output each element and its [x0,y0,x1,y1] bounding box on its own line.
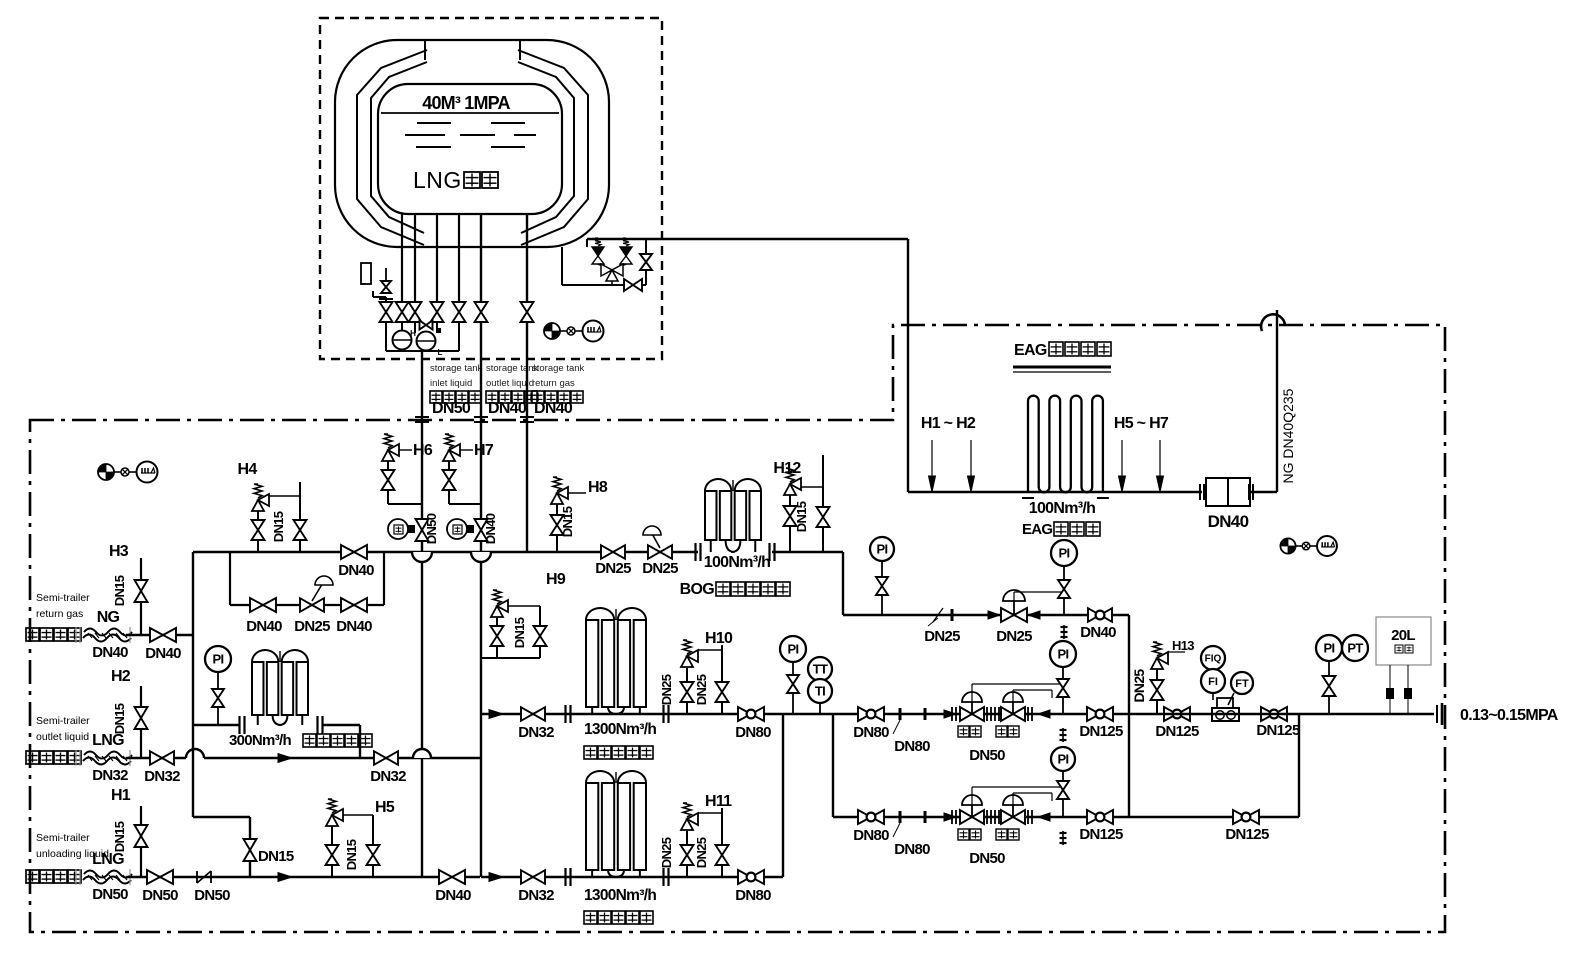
tank inner vessel [378,84,562,214]
svg-text:storage tank: storage tank [430,363,483,374]
svg-text:DN25: DN25 [924,628,960,645]
EAG collection header [908,491,1202,493]
svg-text:DN50: DN50 [969,850,1005,867]
svg-text:DN32: DN32 [518,887,554,904]
svg-text:FI: FI [1208,676,1218,688]
regulator train 2 takeoff bus [832,714,834,817]
valve DN80 vap1 outlet [738,707,751,721]
PSV valve left [592,247,604,256]
EAG vaporizer coil 100Nm3/h [1027,401,1029,487]
svg-text:storage tank: storage tank [532,363,585,374]
tank nozzle pipes [401,213,403,302]
impulse lines train2 [971,787,973,805]
svg-text:PI: PI [1058,752,1069,767]
bypass valve DN40 right [341,598,354,612]
trailer unloading line [126,876,480,878]
svg-text:DN32: DN32 [370,768,406,785]
svg-text:H10: H10 [705,630,733,647]
vaporizer 1 outlet flange [662,705,664,723]
tank pressure regulator assembly [361,263,371,284]
svg-text:1300Nm³/h: 1300Nm³/h [584,721,656,738]
tank PSV manifold [561,247,563,285]
svg-text:DN50: DN50 [424,513,439,544]
PI gauge BOG line [870,537,894,561]
svg-text:H1 ~ H2: H1 ~ H2 [921,415,976,432]
svg-text:DN40: DN40 [1080,624,1116,641]
outlet end flange [1436,705,1438,723]
bypass valve DN40 left [250,598,263,612]
tank jacket outer right [518,50,588,245]
svg-text:DN40: DN40 [336,618,372,635]
svg-text:DN40: DN40 [435,887,471,904]
valve DN32 outlet [150,751,162,765]
H4 relief assembly [257,508,259,552]
H3 vent riser [140,558,142,635]
svg-text:H1: H1 [111,787,131,804]
svg-text:DN25: DN25 [694,674,709,705]
svg-text:EAG: EAG [1022,521,1052,538]
TT TI instruments [808,657,832,681]
svg-text:DN80: DN80 [853,724,889,741]
regulator valve train1 [994,707,996,721]
svg-text:DN15: DN15 [112,821,127,852]
svg-text:DN80: DN80 [894,738,930,755]
insulating joint DN25 [933,608,943,622]
svg-text:DN15: DN15 [112,575,127,606]
tank valve row [380,302,393,312]
insulating joints train1 [899,708,902,720]
liquid level line [381,112,559,114]
svg-text:inlet liquid: inlet liquid [430,378,472,389]
svg-text:DN25: DN25 [659,837,674,868]
DN15 valve booster feed [249,817,251,877]
tank outlet liquid DN40 drop pipe [480,322,482,877]
svg-text:PI: PI [1324,641,1335,656]
svg-text:Semi-trailer: Semi-trailer [36,832,90,844]
valve DN125 train2 [1087,810,1100,824]
svg-text:DN80: DN80 [894,841,930,858]
svg-text:DN80: DN80 [853,827,889,844]
svg-text:H7: H7 [474,442,494,459]
svg-text:20L: 20L [1391,627,1415,644]
svg-text:NG: NG [97,609,120,626]
H9 relief assembly [481,657,540,659]
svg-text:EAG: EAG [1014,342,1047,359]
flow arrow unloading line [278,873,292,882]
trailer outlet liquid line [126,757,186,759]
svg-text:DN40: DN40 [246,618,282,635]
H11 relief assembly [686,831,688,877]
tank instrument cluster [544,323,560,339]
liquid level dashes [417,122,451,124]
BOG control valve DN25 [988,611,1000,619]
svg-text:DN40: DN40 [534,400,573,417]
svg-text:PI: PI [1059,546,1070,561]
svg-text:storage tank: storage tank [486,363,539,374]
H1 vent riser [140,806,142,877]
H6 relief assembly [388,503,422,505]
tank vent line to EAG system [587,238,908,240]
svg-text:TI: TI [815,684,825,699]
svg-text:300Nm³/h: 300Nm³/h [229,732,291,749]
svg-text:DN50: DN50 [432,400,471,417]
svg-text:LNG: LNG [413,167,462,193]
line jump over bus [186,749,204,758]
svg-text:PI: PI [788,642,799,657]
svg-text:DN50: DN50 [142,887,178,904]
PI gauge train2 [1051,747,1075,771]
header valve DN25 [601,545,613,559]
regulator valve train2 [994,810,996,824]
tank jacket inner left [371,62,427,233]
svg-text:DN25: DN25 [595,560,631,577]
jump over DN50 line [413,749,431,758]
svg-text:PI: PI [213,652,224,667]
valve DN125 train1 [1087,707,1100,721]
pneumatic shutoff valve DN40 line [475,519,488,530]
H2 vent riser [140,686,142,758]
right bus line [1128,615,1130,817]
header bypass loop [229,552,231,605]
svg-text:H4: H4 [237,461,257,478]
svg-text:H5 ~ H7: H5 ~ H7 [1114,415,1169,432]
svg-text:DN15: DN15 [112,703,127,734]
svg-text:H6: H6 [413,442,433,459]
svg-text:H13: H13 [1172,638,1194,653]
valve DN40 unloading to fill line [439,870,452,884]
tank jacket outer left [357,50,427,245]
svg-text:H12: H12 [773,460,801,477]
gauge manifold piping [385,322,387,351]
svg-text:1300Nm³/h: 1300Nm³/h [584,887,656,904]
shutoff valve train2 [944,813,956,821]
svg-text:PT: PT [1347,641,1363,656]
bypass valve DN125 [1233,810,1246,824]
flame arrestor DN40 [1199,484,1201,500]
BOG vaporizer 100Nm3/h body [705,491,716,540]
main outlet line [1129,713,1434,715]
svg-text:DN15: DN15 [344,839,359,870]
svg-text:FIQ: FIQ [1205,654,1222,665]
svg-text:DN80: DN80 [735,887,771,904]
PSV valve right [620,247,632,256]
svg-text:DN125: DN125 [1079,723,1123,740]
BOG vaporizer inlet flange [694,543,696,561]
BOG line elbow [772,551,843,553]
impulse lines train1 [971,684,973,702]
svg-text:DN40: DN40 [1208,512,1249,531]
booster vaporizer 300Nm3/h body [252,662,263,715]
H12 relief assembly [789,494,791,552]
odorizer 20L [1376,617,1431,665]
svg-text:0.13~0.15MPA: 0.13~0.15MPA [1460,707,1559,724]
shutoff valve train1 [944,710,956,718]
PI gauge mid line [780,636,806,662]
svg-text:100Nm³/h: 100Nm³/h [704,554,770,571]
svg-text:DN40: DN40 [488,400,527,417]
tank label CJK chu-guan [464,172,480,188]
svg-text:NG DN40Q235: NG DN40Q235 [1280,388,1296,483]
svg-text:DN50: DN50 [969,747,1005,764]
svg-text:DN25: DN25 [642,560,678,577]
valve DN40 BOG line [1088,608,1100,622]
tank return gas DN40 drop pipe [526,322,528,552]
valve DN80 vap2 outlet [738,870,751,884]
air vaporizer 1300Nm3/h no.2 [586,783,598,870]
svg-text:DN15: DN15 [271,511,286,542]
svg-text:DN125: DN125 [1155,723,1199,740]
svg-text:DN15: DN15 [794,501,809,532]
bypass regulator DN25 [300,598,312,612]
train2 line [833,816,1299,818]
svg-text:H5: H5 [375,799,395,816]
svg-text:Semi-trailer: Semi-trailer [36,592,90,604]
svg-text:H8: H8 [588,479,608,496]
valve DN32 vaporizer 1 [521,707,533,721]
BOG header pipe [193,551,698,553]
valve DN40 NG return [150,628,163,642]
svg-text:outlet liquid: outlet liquid [36,731,89,743]
PI gauge train1 [1050,641,1076,667]
svg-text:DN80: DN80 [735,724,771,741]
storage tank enclosure dashed boundary [320,18,662,359]
svg-text:return gas: return gas [36,608,83,620]
svg-text:DN25: DN25 [996,628,1032,645]
tank inlet liquid DN50 drop pipe [421,359,423,877]
svg-text:DN50: DN50 [194,887,230,904]
meter bypass return [1298,714,1300,817]
svg-text:DN32: DN32 [518,724,554,741]
H7 relief assembly [449,503,481,505]
vaporizer 2 outlet line [566,876,783,878]
svg-text:LNG: LNG [92,851,124,868]
valve DN50 unloading [147,870,160,884]
svg-text:DN15: DN15 [512,617,527,648]
svg-text:DN32: DN32 [144,768,180,785]
svg-text:DN32: DN32 [92,767,128,784]
tank jacket inner right [518,62,574,233]
flow meter FIQ FI FT [1201,646,1225,670]
svg-text:DN40: DN40 [338,562,374,579]
svg-text:DN125: DN125 [1079,826,1123,843]
svg-text:DN50: DN50 [92,886,128,903]
vaporizer feed tee lower [489,873,503,882]
tank neck [424,40,426,60]
EAG riser NG DN40Q235 [1276,310,1278,492]
booster inlet line [193,724,240,726]
NG return line [126,634,193,636]
valve DN125 meter inlet [1164,707,1177,721]
level gauge LI-H [393,331,412,350]
valve DN32 before vaporizer join [374,751,386,765]
pneumatic shutoff valve DN50 line [416,519,429,530]
H13 relief assembly [1156,668,1158,714]
svg-text:PI: PI [1058,647,1069,662]
main station dash-dot boundary [30,325,1445,932]
mid line [566,713,1129,715]
left instrument cluster [98,464,114,480]
PI PT gauges outlet [1316,635,1342,661]
PI gauge EAG outlet [1051,540,1077,566]
valve DN80 train2 [858,810,871,824]
header regulator DN25 [648,545,660,559]
valve DN32 vaporizer 2 [521,870,533,884]
H5 relief assembly [331,824,333,877]
tank outer shell [335,40,609,247]
svg-text:DN125: DN125 [1256,722,1300,739]
EAG instrument cluster [1280,538,1295,553]
svg-text:100Nm³/h: 100Nm³/h [1029,500,1095,517]
svg-text:L: L [438,348,443,357]
vap2 join bus [782,714,784,877]
boundary crossing flanges [415,416,429,418]
vaporizer feed tee upper [489,710,503,719]
svg-text:DN25: DN25 [659,674,674,705]
valve DN125 meter outlet [1261,707,1274,721]
flow arrow outlet line [278,754,292,763]
gauge bypass valve [420,321,427,330]
insulating joints train2 [899,811,902,823]
header valve DN40 [341,545,354,559]
svg-text:Semi-trailer: Semi-trailer [36,715,90,727]
svg-text:H11: H11 [705,793,732,810]
svg-text:PI: PI [877,542,888,557]
svg-text:DN25: DN25 [294,618,330,635]
valve DN80 train1 [858,707,871,721]
svg-text:DN25: DN25 [1131,669,1147,703]
H8 relief assembly [556,498,558,552]
level gauge LI-L [417,332,436,351]
svg-text:DN15: DN15 [560,506,575,537]
left bus line NG return to header [192,552,194,817]
svg-text:H2: H2 [111,668,131,685]
H10 relief assembly [686,668,688,714]
svg-text:DN15: DN15 [258,848,294,865]
svg-text:DN40: DN40 [483,513,498,544]
svg-text:DN125: DN125 [1225,826,1269,843]
svg-text:TT: TT [813,662,828,677]
PSV selector three-way valve [598,264,612,270]
BOG vaporizer outlet flange [768,543,770,561]
svg-text:FT: FT [1235,678,1249,690]
svg-text:DN40: DN40 [92,644,128,661]
svg-text:return gas: return gas [532,378,575,389]
svg-text:H9: H9 [546,571,566,588]
svg-text:H3: H3 [109,543,129,560]
air vaporizer 1300Nm3/h no.1 [586,620,598,707]
check valve DN50 [196,871,198,883]
svg-text:40M³ 1MPA: 40M³ 1MPA [422,93,510,113]
svg-text:BOG: BOG [680,581,715,598]
svg-text:DN25: DN25 [694,837,709,868]
PI gauge booster [205,646,231,672]
svg-text:DN40: DN40 [145,645,181,662]
